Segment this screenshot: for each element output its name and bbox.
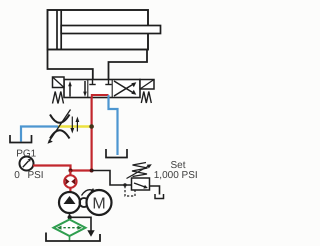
red drop to pump <box>69 171 71 176</box>
wire cylinder cap-end to valve port A <box>48 50 93 80</box>
flow control adjust arrow <box>50 110 71 141</box>
relief spring <box>132 163 148 177</box>
spring left <box>53 92 64 104</box>
rotation arrow <box>82 190 94 196</box>
pump suction line <box>69 213 71 220</box>
tank T3 relief drain <box>155 194 164 199</box>
valve right envelope crossed arrow 2 <box>114 81 134 93</box>
cylinder C1 body <box>48 10 149 50</box>
tank T2 mid right <box>106 149 127 158</box>
relief feed line black <box>92 171 132 186</box>
svg-text:0: 0 <box>14 170 20 181</box>
solenoid left <box>53 77 65 88</box>
blue line to left tank <box>21 127 58 142</box>
junction dot yellow <box>89 124 94 129</box>
valve left envelope up arrow <box>69 84 71 97</box>
gauge PG1 <box>20 157 34 171</box>
valve V1 body <box>64 80 140 98</box>
cylinder piston <box>56 10 58 50</box>
valve center P-to-T path red <box>92 95 109 98</box>
svg-text:PSI: PSI <box>27 170 43 181</box>
tank line blue from valve T <box>109 98 118 156</box>
pressure line red vertical P <box>90 98 92 171</box>
flow arrow up small <box>76 121 78 132</box>
coupler circle red <box>64 175 76 187</box>
coupling <box>80 198 89 207</box>
motor M1 <box>87 190 112 215</box>
flow control FC1 bottom arc <box>50 130 70 138</box>
wire cylinder rod-end to valve port B <box>109 50 148 80</box>
valve right envelope crossed arrow 1 <box>114 84 134 96</box>
yellow static line <box>58 125 92 127</box>
tank T1 upper left <box>10 135 32 143</box>
junction node pilot tap <box>123 183 126 186</box>
flow control FC1 top arc <box>50 115 70 123</box>
return branch to tank <box>70 217 92 230</box>
valve left envelope down arrow <box>84 81 86 94</box>
junction node at pump drop <box>69 169 73 173</box>
valve envelope border right <box>111 80 113 98</box>
relief internal arrow <box>134 183 145 187</box>
junction node below pump <box>68 215 72 219</box>
svg-text:M: M <box>92 196 105 213</box>
flow arrow down small <box>71 117 73 129</box>
red gauge line <box>33 166 92 171</box>
relief adjust arrow <box>127 166 150 179</box>
tank T4 main <box>46 233 100 242</box>
junction node at relief tap <box>90 169 94 173</box>
relief outlet <box>150 186 160 195</box>
relief pilot dashed <box>125 186 135 196</box>
spring right <box>141 92 151 104</box>
valve center blocked port A stub <box>92 80 94 85</box>
red stub into pump <box>69 188 71 193</box>
strainer stem <box>69 236 71 241</box>
svg-text:1,000 PSI: 1,000 PSI <box>154 170 198 181</box>
valve center blocked port B stub <box>108 80 110 85</box>
pump P1 <box>59 192 80 213</box>
cylinder rod <box>61 26 160 34</box>
valve center T leg blue <box>108 95 110 98</box>
valve envelope border left <box>87 80 89 98</box>
relief valve RV1 body <box>132 178 150 190</box>
solenoid right <box>140 80 154 90</box>
strainer S1 <box>54 220 86 237</box>
